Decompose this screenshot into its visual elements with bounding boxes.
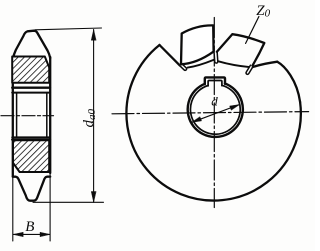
left view centerline — [1, 115, 54, 117]
left view bottom face with V notch (inverted tooth profile) — [13, 177, 50, 201]
tooth blade 2 — [217, 34, 264, 66]
svg-text:da0: da0 — [81, 109, 98, 128]
left view outer left edge — [12, 57, 14, 177]
d dimension line — [192, 105, 240, 123]
lower hatched hub section — [13, 140, 49, 172]
gullet slot 1 — [179, 63, 187, 71]
gullet root curve 1 — [188, 60, 214, 68]
d arrow lower-left — [192, 117, 202, 123]
da0 bottom extension line — [33, 201, 104, 203]
cutter body main circle arc — [126, 45, 300, 201]
left view top roof (tooth profile) — [13, 31, 50, 59]
upper hatched hub section — [12, 57, 49, 83]
bore inner wall left — [16, 94, 18, 137]
bore bottom face line — [12, 138, 50, 140]
B dimension extension line right — [49, 174, 51, 241]
bore top face line — [12, 87, 50, 89]
bore inner chamfer circle — [190, 85, 240, 134]
line to right peak — [253, 62, 277, 67]
bore outer circle with keyway gap — [188, 84, 243, 137]
d arrow upper-right — [230, 105, 240, 111]
tooth back slope from left peak — [160, 45, 180, 65]
right view horizontal centerline — [112, 112, 309, 114]
B arrow right — [40, 232, 50, 236]
B arrow left — [13, 232, 23, 236]
B dimension extension line left — [12, 177, 14, 241]
Z0 leader line — [246, 17, 259, 44]
left view right edge — [49, 57, 51, 173]
keyway chamfer outline — [208, 81, 222, 86]
da0 arrow top — [91, 30, 96, 41]
da0 arrow bottom — [91, 192, 96, 203]
svg-text:Z0: Z0 — [256, 3, 270, 20]
svg-text:d: d — [211, 93, 218, 108]
tooth back curve to circle — [277, 62, 300, 102]
keyway outer outline — [205, 77, 225, 84]
svg-text:B: B — [25, 219, 34, 235]
bore top chamfer line — [12, 92, 50, 94]
tooth blade 1 — [181, 25, 214, 64]
gullet root curve 2 — [218, 61, 251, 67]
da0 top extension line — [35, 28, 102, 30]
bore inner wall right — [46, 94, 48, 137]
gullet slot 2 — [214, 51, 218, 63]
gullet slot 3 — [245, 65, 252, 75]
da0 dimension line — [93, 30, 95, 203]
B dimension line — [13, 233, 50, 235]
right view vertical centerline — [213, 18, 215, 208]
bore bottom chamfer line — [12, 136, 50, 138]
